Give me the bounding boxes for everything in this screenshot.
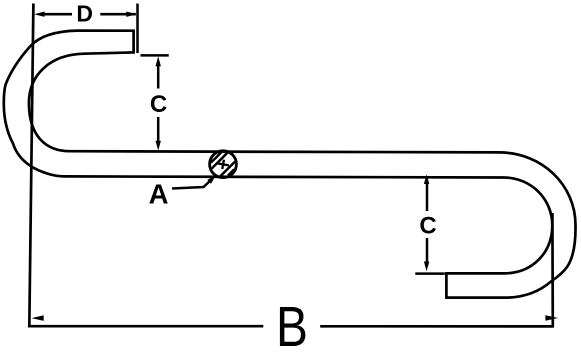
C (lower) up arrowhead xyxy=(424,174,429,184)
C (lower) bottom extension line xyxy=(415,272,445,275)
B dimension line right segment xyxy=(320,325,552,328)
hatch line far lower-right xyxy=(228,169,234,175)
B right arrowhead xyxy=(545,315,558,321)
D dimension line right segment xyxy=(100,13,136,16)
B dimension line left segment xyxy=(29,325,263,328)
S-hook part outline xyxy=(4,31,576,298)
leader line from A to section circle xyxy=(172,181,211,189)
C (upper) down arrowhead xyxy=(156,141,161,151)
section circle A (wire cross-section) xyxy=(210,151,237,178)
D right arrowhead xyxy=(126,12,136,17)
svg-text:D: D xyxy=(76,0,93,26)
left extension line (D left / B left, slightly tilted) xyxy=(29,4,33,328)
D right extension line xyxy=(136,4,139,54)
C (upper) up arrowhead xyxy=(156,56,161,66)
svg-text:C: C xyxy=(150,91,167,118)
B left arrowhead xyxy=(32,315,44,321)
C (lower) down arrowhead xyxy=(424,262,429,272)
D left arrowhead xyxy=(34,12,44,17)
leader arrowhead xyxy=(207,175,216,184)
svg-text:B: B xyxy=(276,295,308,359)
center cross (asterisk mark) xyxy=(217,159,230,170)
hatch line lower-right xyxy=(220,162,235,177)
C (lower) dimension line upper segment xyxy=(426,180,429,211)
hatch line upper-left xyxy=(212,153,228,169)
svg-text:C: C xyxy=(419,213,436,240)
svg-text:A: A xyxy=(149,179,169,210)
D dimension line left segment xyxy=(43,13,72,16)
C (upper) top extension line xyxy=(141,54,169,57)
C (upper) dimension line lower segment xyxy=(157,117,160,144)
hatch line far upper-left xyxy=(211,152,222,163)
B right extension line xyxy=(551,213,554,328)
C (lower) dimension line lower segment xyxy=(426,238,429,266)
C (upper) dimension line upper segment xyxy=(157,62,160,89)
